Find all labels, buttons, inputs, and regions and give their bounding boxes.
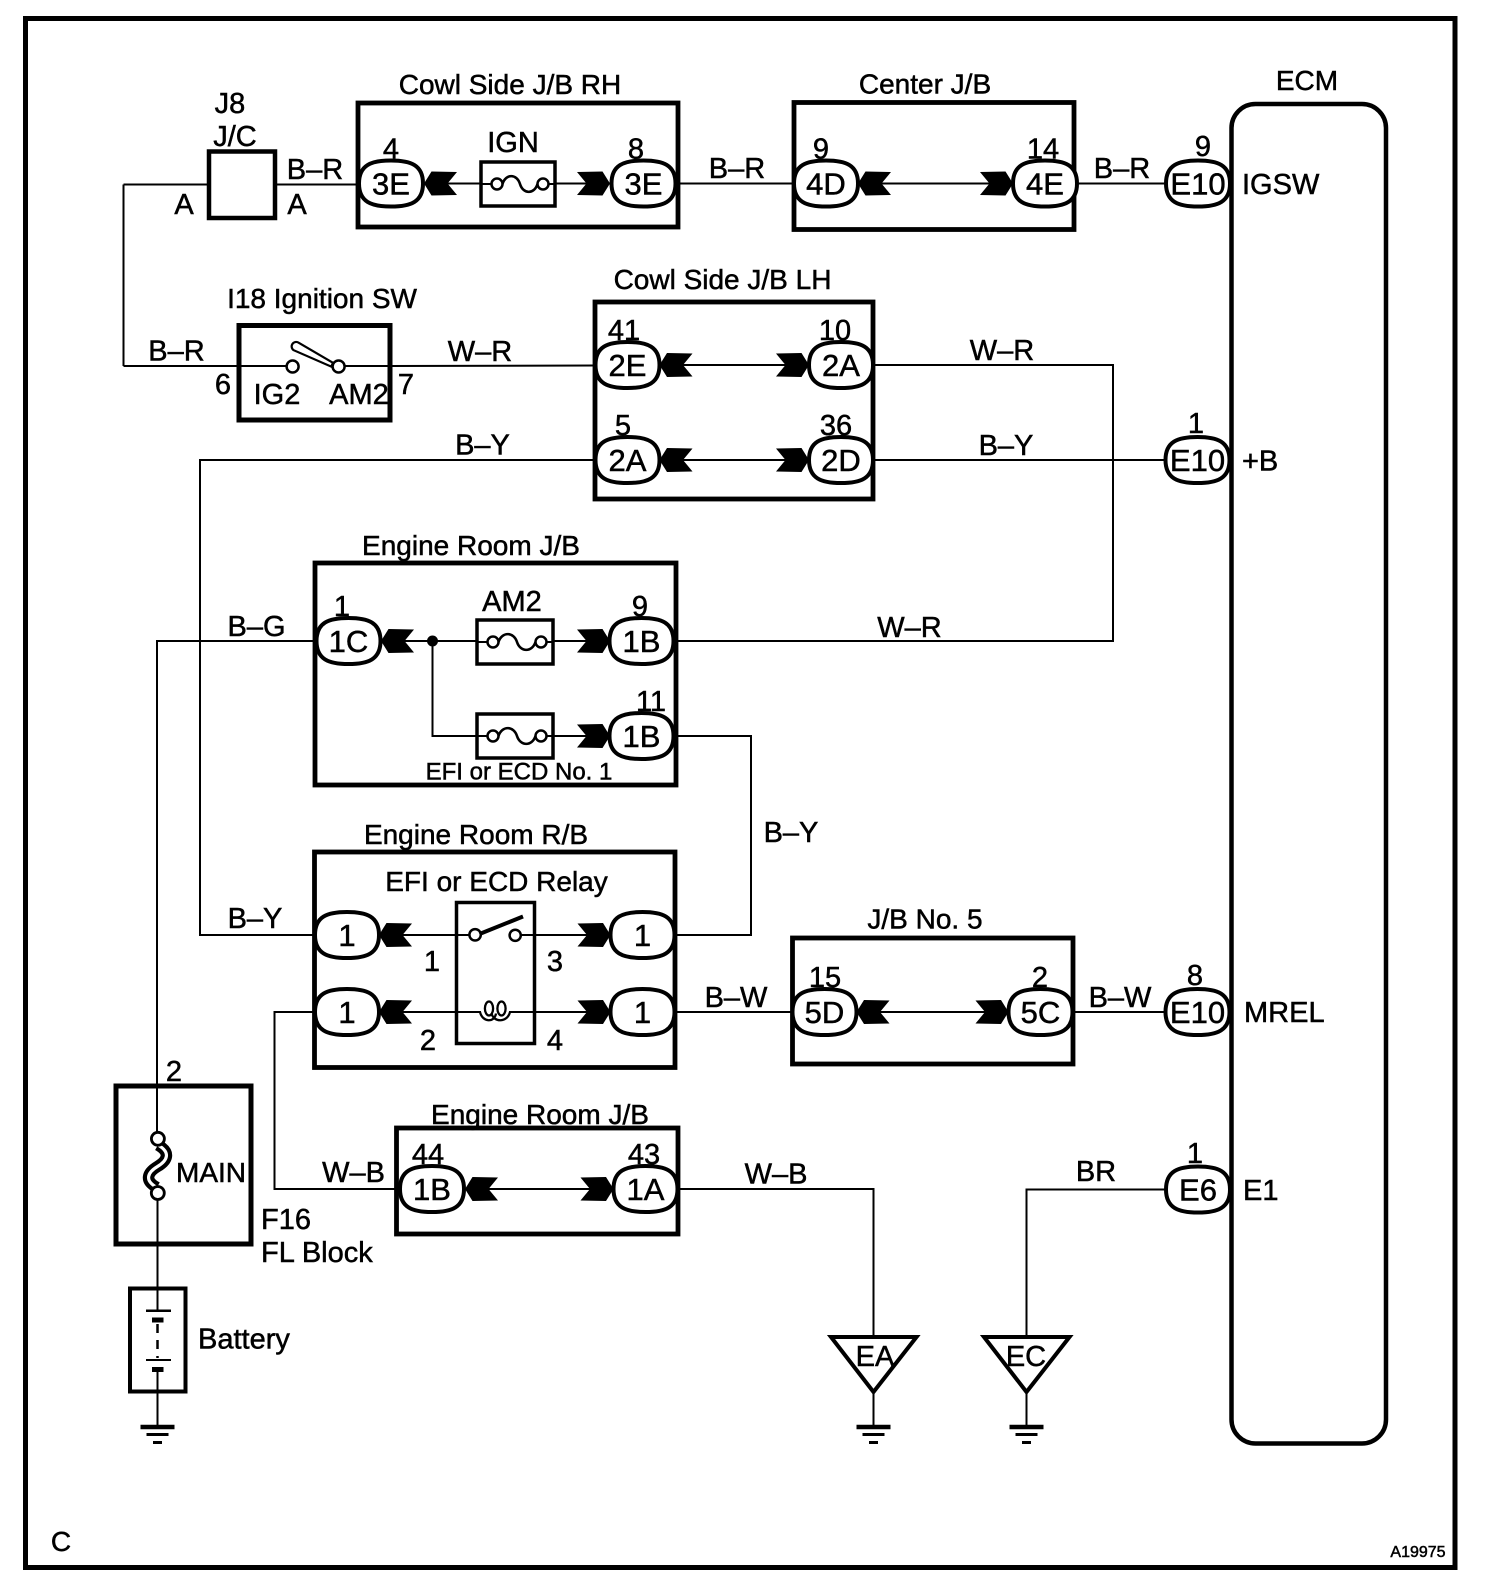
wire inside relay row2 right: [509, 1011, 611, 1013]
ignition switch contact AM2: [333, 361, 345, 373]
svg-text:2A: 2A: [822, 348, 860, 383]
fuse EFI or ECD No. 1: [426, 714, 613, 786]
svg-text:B–G: B–G: [227, 611, 285, 643]
arrow into 4E pin14: [980, 172, 1013, 196]
svg-text:E10: E10: [1170, 443, 1225, 478]
svg-text:B–Y: B–Y: [764, 817, 819, 849]
label FL Block: [261, 1237, 373, 1269]
svg-text:E10: E10: [1170, 167, 1225, 202]
svg-text:E1: E1: [1243, 1175, 1278, 1207]
svg-text:B–R: B–R: [709, 153, 765, 185]
wire label B-R ignition feed: [148, 336, 204, 368]
wire inside bottom Engine Room J/B 1B to 1A: [464, 1188, 614, 1190]
arrow into 3E pin8: [577, 172, 610, 196]
svg-text:2: 2: [420, 1025, 436, 1057]
battery ground symbol: [141, 1427, 175, 1443]
relay coil: [480, 1002, 510, 1021]
svg-text:MREL: MREL: [1244, 997, 1325, 1029]
wire W-B relay coil to Engine Room J/B 1B pin44: [275, 1012, 400, 1189]
svg-text:9: 9: [813, 134, 829, 166]
svg-text:11: 11: [636, 686, 666, 718]
connector 1B pin 9 Engine Room J/B: [610, 591, 674, 664]
wire label B-Y fuse to relay: [764, 817, 819, 849]
ECM terminal label IGSW: [1242, 169, 1320, 201]
wire B-Y 2D pin36 to ECM +B: [873, 459, 1166, 461]
wire battery to ground: [157, 1370, 159, 1426]
wire label W-R to ECM node: [970, 335, 1034, 367]
connector 4E pin 14 Center J/B: [1013, 134, 1077, 207]
svg-text:4: 4: [383, 134, 399, 166]
junction node AM2/EFI fuse feed: [427, 636, 438, 647]
svg-text:J8: J8: [215, 88, 246, 120]
ECM terminal label MREL: [1244, 997, 1325, 1029]
svg-text:43: 43: [628, 1139, 660, 1171]
wire B-Y 2A pin5 to EFI relay input: [200, 460, 596, 935]
svg-text:AM2: AM2: [482, 586, 542, 618]
svg-text:F16: F16: [261, 1204, 311, 1236]
arrow into relay pin3: [578, 923, 611, 947]
arrow into 2D pin36: [776, 448, 809, 472]
wire inside relay row1 right: [520, 934, 610, 936]
arrow into relay pin2: [379, 1000, 412, 1024]
svg-text:Engine Room R/B: Engine Room R/B: [364, 819, 588, 850]
wire label W-R from 1B pin9: [877, 612, 941, 644]
wire W-R ignition switch to Cowl Side J/B LH: [390, 365, 596, 368]
svg-text:1: 1: [334, 591, 350, 623]
svg-text:2: 2: [166, 1056, 182, 1088]
wire IGN fuse to 3E pin 8: [555, 183, 612, 185]
svg-text:+B: +B: [1242, 446, 1278, 478]
svg-text:A: A: [287, 189, 307, 221]
wire label W-R ignition to Cowl LH: [448, 336, 512, 368]
label Battery: [198, 1324, 290, 1356]
ECM terminal label E1: [1243, 1175, 1278, 1207]
wire inside Cowl LH 2E to 2A: [660, 364, 810, 366]
svg-text:5D: 5D: [805, 995, 845, 1030]
arrow into 5D pin15: [857, 1000, 890, 1024]
svg-text:Engine Room J/B: Engine Room J/B: [362, 530, 580, 561]
junction box Center J/B: [794, 69, 1074, 230]
wire label B-G: [227, 611, 285, 643]
svg-text:I18 Ignition SW: I18 Ignition SW: [227, 283, 417, 314]
svg-text:W–B: W–B: [322, 1157, 385, 1189]
svg-text:B–Y: B–Y: [979, 430, 1034, 462]
relay contact left: [469, 929, 480, 940]
wire ignition switch IG2 contact stub: [239, 365, 287, 367]
wire inside Cowl LH 2A to 2D: [660, 459, 810, 461]
svg-text:J/B No. 5: J/B No. 5: [867, 904, 982, 935]
wire label B-R to IGSW: [1094, 153, 1150, 185]
wire EFI fuse to 1B pin11: [553, 735, 610, 737]
svg-text:6: 6: [215, 369, 231, 401]
fuse AM2: [477, 586, 553, 664]
connector 1B pin 44 lower J/B: [400, 1139, 464, 1212]
svg-text:B–W: B–W: [1089, 982, 1152, 1014]
wire label BR to E1: [1076, 1156, 1116, 1188]
svg-text:4E: 4E: [1026, 167, 1064, 202]
wire label B-R at J8: [287, 154, 343, 186]
wire label W-B to EA: [745, 1159, 808, 1191]
fusible link block F16 box: [116, 1086, 251, 1244]
svg-text:1: 1: [1188, 408, 1204, 440]
wire label B-W to MREL: [1089, 982, 1152, 1014]
wire W-B 1A pin43 to ground EA: [678, 1189, 874, 1337]
svg-text:MAIN: MAIN: [176, 1157, 246, 1188]
svg-text:W–R: W–R: [877, 612, 941, 644]
arrow into 1A pin43: [581, 1177, 614, 1201]
svg-text:EFI or ECD No. 1: EFI or ECD No. 1: [426, 759, 613, 786]
connector E6 pin 1 E1: [1166, 1138, 1230, 1213]
wire MAIN fusible link to battery: [157, 1200, 159, 1311]
svg-text:Center J/B: Center J/B: [859, 69, 991, 100]
wire MAIN box top stub: [156, 1086, 158, 1132]
wire label B-R Cowl RH to Center: [709, 153, 765, 185]
arrow into 4D pin9: [858, 172, 891, 196]
connector 1C pin 1 Engine Room J/B: [317, 591, 381, 664]
svg-text:W–B: W–B: [745, 1159, 808, 1191]
svg-text:3: 3: [547, 946, 563, 978]
wire BR ground EC to ECM E1: [1027, 1190, 1167, 1338]
wire B-R 4E to ECM IGSW: [1077, 183, 1166, 185]
arrow into 1B pin44: [465, 1177, 498, 1201]
figure number A19975: [1390, 1544, 1445, 1561]
contact label AM2: [329, 379, 389, 411]
ECM terminal label +B: [1242, 446, 1278, 478]
relay box Engine Room R/B: [315, 819, 676, 1068]
connector 2A pin 10 Cowl LH: [809, 315, 873, 388]
svg-text:1: 1: [634, 995, 651, 1030]
wire label B-Y relay input: [228, 903, 283, 935]
battery plates: [146, 1311, 171, 1370]
svg-text:IGSW: IGSW: [1242, 169, 1320, 201]
connector 3E pin 8 Cowl RH: [612, 134, 676, 207]
arrow into 2E pin41: [660, 353, 693, 377]
ignition switch I18 box: [227, 283, 417, 420]
connector 2A pin 5 Cowl LH: [596, 410, 660, 483]
svg-text:C: C: [51, 1526, 71, 1557]
connector 5C pin 2 J/B No.5: [1009, 962, 1073, 1035]
drawing label C: [51, 1526, 71, 1557]
arrow into 2A pin10: [776, 353, 809, 377]
svg-text:1B: 1B: [623, 624, 661, 659]
svg-text:41: 41: [608, 315, 640, 347]
arrow into 2A pin5: [660, 448, 693, 472]
svg-text:Cowl Side J/B LH: Cowl Side J/B LH: [614, 264, 832, 295]
connector E10 pin 1 +B: [1166, 408, 1230, 483]
ground triangle EC: [984, 1337, 1070, 1392]
svg-text:BR: BR: [1076, 1156, 1116, 1188]
svg-text:E6: E6: [1179, 1173, 1217, 1208]
ground symbol under EA: [857, 1427, 891, 1443]
connector E10 pin 8 MREL: [1166, 960, 1230, 1035]
ground symbol under EC: [1010, 1427, 1044, 1443]
connector 3E pin 4 Cowl RH: [359, 134, 423, 207]
svg-text:3E: 3E: [372, 167, 410, 202]
svg-text:1: 1: [1187, 1138, 1203, 1170]
svg-text:Cowl Side J/B RH: Cowl Side J/B RH: [399, 69, 622, 100]
svg-text:2E: 2E: [609, 348, 647, 383]
svg-text:2: 2: [1032, 962, 1048, 994]
relay contact right: [510, 930, 521, 941]
relay pin 1 label: [424, 946, 440, 978]
svg-text:2A: 2A: [609, 443, 647, 478]
svg-text:E10: E10: [1170, 995, 1225, 1030]
svg-text:W–R: W–R: [448, 336, 512, 368]
arrow into relay pin4: [578, 1000, 611, 1024]
arrow into 1B pin11: [577, 724, 610, 748]
connector E10 pin 9 IGSW: [1166, 131, 1230, 207]
svg-text:8: 8: [1187, 960, 1203, 992]
wire inside J/B No.5 5D to 5C: [857, 1011, 1009, 1013]
svg-text:1: 1: [424, 946, 440, 978]
svg-text:5: 5: [615, 410, 631, 442]
svg-text:1B: 1B: [623, 719, 661, 754]
ECM module box U1: [1232, 65, 1387, 1444]
svg-text:7: 7: [398, 369, 414, 401]
arrow into 5C pin2: [976, 1000, 1009, 1024]
connector relay coil pin 1 right: [611, 989, 675, 1035]
svg-text:1B: 1B: [413, 1172, 451, 1207]
wire B-W relay to J/B No.5 5D: [675, 1011, 793, 1013]
ground triangle EA: [831, 1337, 917, 1392]
svg-text:1: 1: [338, 918, 355, 953]
wire B-R Cowl RH to Center J/B: [676, 183, 795, 185]
terminal label A right of J8: [287, 189, 307, 221]
svg-text:B–R: B–R: [1094, 153, 1150, 185]
svg-text:B–Y: B–Y: [228, 903, 283, 935]
wire B-G Engine Room J/B 1C to MAIN fusible link: [157, 641, 317, 1086]
connector relay coil pin 1 left: [315, 989, 379, 1035]
connector 2E pin 41 Cowl LH: [596, 315, 660, 388]
svg-text:4: 4: [547, 1025, 563, 1057]
svg-text:IGN: IGN: [487, 127, 539, 159]
svg-text:B–R: B–R: [287, 154, 343, 186]
connector 5D pin 15 J/B No.5: [793, 962, 857, 1035]
wire inside Cowl Side J/B RH to IGN fuse: [423, 183, 481, 185]
terminal label A left of J8: [174, 189, 194, 221]
svg-text:8: 8: [628, 134, 644, 166]
relay pin 3 label: [547, 946, 563, 978]
pin 7 label ignition switch: [398, 369, 414, 401]
wire label B-Y to +B: [979, 430, 1034, 462]
fusible link MAIN symbol: [149, 1132, 167, 1199]
svg-text:1: 1: [634, 918, 651, 953]
wire inside relay row2 left: [379, 1011, 481, 1013]
arrow into 1C pin1: [381, 629, 414, 653]
pin 6 label ignition switch: [215, 369, 231, 401]
relay inner rect EFI or ECD Relay: [385, 866, 608, 1044]
svg-text:1: 1: [338, 995, 355, 1030]
arrow into 1B pin9: [577, 629, 610, 653]
svg-text:36: 36: [820, 410, 852, 442]
svg-text:W–R: W–R: [970, 335, 1034, 367]
svg-text:B–R: B–R: [148, 336, 204, 368]
junction box Cowl Side J/B LH: [595, 264, 873, 499]
ignition switch lever: [292, 342, 333, 367]
junction box Engine Room J/B lower: [397, 1099, 679, 1234]
label MAIN: [176, 1157, 246, 1188]
label F16: [261, 1204, 311, 1236]
wire label B-W relay to J/B5: [705, 982, 768, 1014]
battery box: [130, 1289, 186, 1392]
wire inside Center J/B 4D to 4E: [858, 183, 1013, 185]
svg-text:J/C: J/C: [213, 121, 257, 153]
relay pin 2 label: [420, 1025, 436, 1057]
svg-text:EA: EA: [856, 1341, 895, 1373]
contact label IG2: [254, 379, 301, 411]
svg-text:1A: 1A: [627, 1172, 665, 1207]
svg-text:4D: 4D: [806, 167, 846, 202]
junction box Engine Room J/B upper: [315, 530, 676, 785]
wire junction drop to EFI fuse: [433, 641, 478, 736]
connector relay output pin 1 right: [611, 912, 675, 958]
svg-text:EC: EC: [1006, 1341, 1046, 1373]
arrow into 3E pin4: [424, 172, 457, 196]
wire W-R 2A pin10 to node down to Engine Room J/B 1B: [674, 365, 1114, 641]
svg-text:10: 10: [819, 315, 851, 347]
pin 2 label above MAIN: [166, 1056, 182, 1088]
wire B-R J8 to ignition switch vertical: [123, 185, 125, 367]
svg-text:15: 15: [809, 962, 841, 994]
svg-text:FL Block: FL Block: [261, 1237, 373, 1269]
svg-text:A: A: [174, 189, 194, 221]
svg-text:EFI or ECD Relay: EFI or ECD Relay: [385, 866, 608, 897]
connector relay input pin 1 left: [315, 912, 379, 958]
relay pin 4 label: [547, 1025, 563, 1057]
wire B-W 5C to ECM MREL: [1073, 1011, 1166, 1013]
wire EC triangle to ground: [1026, 1392, 1028, 1425]
connector 1B pin 11 Engine Room J/B: [610, 686, 674, 759]
wire B-R J8 to Cowl Side J/B RH: [275, 184, 360, 186]
wire B-R ignition switch feed: [124, 365, 240, 367]
wire inside relay row1 left: [379, 934, 470, 936]
svg-text:44: 44: [412, 1139, 444, 1171]
arrow into relay pin1: [379, 923, 412, 947]
fuse IGN: [481, 127, 555, 206]
svg-text:1C: 1C: [329, 624, 369, 659]
svg-text:9: 9: [632, 591, 648, 623]
svg-text:Battery: Battery: [198, 1324, 290, 1356]
wire B-Y 1B pin11 to EFI relay output: [674, 736, 752, 935]
wire ignition switch AM2 contact stub: [345, 365, 390, 367]
wire battery feed to J8 junction: [124, 184, 210, 186]
svg-text:5C: 5C: [1021, 995, 1061, 1030]
wire inside Engine Room J/B 1C to AM2 fuse: [381, 640, 478, 642]
svg-text:9: 9: [1195, 131, 1211, 163]
connector 4D pin 9 Center J/B: [794, 134, 858, 207]
svg-text:3E: 3E: [625, 167, 663, 202]
svg-text:IG2: IG2: [254, 379, 301, 411]
wire AM2 fuse to 1B pin9: [553, 640, 610, 642]
svg-text:2D: 2D: [821, 443, 861, 478]
connector 1A pin 43 lower J/B: [614, 1139, 678, 1212]
junction box J/B No. 5: [793, 904, 1074, 1065]
wire label W-B to lower J/B: [322, 1157, 385, 1189]
svg-text:ECM: ECM: [1276, 65, 1338, 96]
svg-text:AM2: AM2: [329, 379, 389, 411]
junction connector J8 J/C: [209, 88, 275, 218]
connector 2D pin 36 Cowl LH: [809, 410, 873, 483]
junction box Cowl Side J/B RH: [358, 69, 678, 227]
svg-text:B–W: B–W: [705, 982, 768, 1014]
ignition switch contact IG2: [287, 361, 299, 373]
svg-text:A19975: A19975: [1390, 1544, 1445, 1561]
relay switch lever: [480, 917, 524, 935]
wire label B-Y from 2A pin5: [455, 430, 510, 462]
svg-text:Engine Room J/B: Engine Room J/B: [431, 1099, 649, 1130]
svg-text:14: 14: [1027, 134, 1059, 166]
svg-text:B–Y: B–Y: [455, 430, 510, 462]
wire EA triangle to ground: [873, 1392, 875, 1425]
